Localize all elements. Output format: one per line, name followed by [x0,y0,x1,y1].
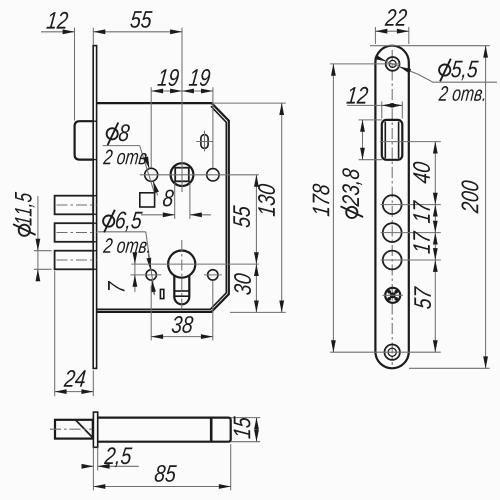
deadbolt pin 3 centerline [57,259,97,261]
label 2 otv upper [103,150,149,165]
faceplate vertical centerline [391,50,393,365]
dimension 40 (latch center to hole 1) [434,142,436,205]
text 15 (latch height) [234,416,251,439]
text 38 [172,316,194,333]
deadbolt hole 1 in faceplate [383,195,402,214]
dimension 19 left [151,87,182,167]
dimension 200 (faceplate length) [370,46,490,369]
horizontal centerline through holes (also ext for dim 55) [140,174,259,176]
text 40 [413,162,430,184]
dimension 55 vertical (hub to cylinder) [255,175,257,264]
text 30 [234,273,251,295]
deadbolt hole 3 in faceplate [383,251,402,270]
deadbolt pin 1 [55,196,94,215]
square follower hub [171,163,194,186]
label 2 otv lower [103,238,149,253]
deadbolt pin 2 centerline [57,232,97,234]
label phi5,5 2 holes with leader [375,57,497,83]
dimension 15 (bar height) [231,418,261,442]
dimension 2,5 (faceplate thickness) [84,448,139,471]
hole phi6,5 left [146,270,156,280]
deadbolt hole 1 centerline [381,204,441,206]
dimension 17 lower [434,233,436,260]
latch bolt pass-through marks on faceplate [93,121,96,269]
hole phi6,5 right [208,270,218,280]
hole right of hub [207,169,219,181]
text 12 (latch protrusion) [46,12,68,29]
latch head centerline [50,428,92,430]
label phi6,5 [103,210,143,233]
latch centerline ext (for dim 40) [380,141,441,143]
dimension 8 (hub square) [141,183,211,219]
deadbolt pin 1 centerline [57,204,97,206]
text 200 (plate length) [461,180,478,213]
bottom countersunk screw hole phi5,5 [385,345,400,360]
oval slot (latch axle) [196,131,213,152]
latch bolt head with bevel [55,420,93,439]
text phi11,5 (pin dia) [13,192,36,236]
latch cutout with latch bolt visible [382,120,403,160]
faceplate plate outline with rounded ends [375,46,408,369]
deadbolt pin 3 [55,251,94,270]
label phi8 2 holes with leader [103,146,158,196]
dimension 12 (latch protrusion) [41,28,75,121]
dimension 30 (cylinder to body bottom) [255,264,257,312]
dimension 85 (latch bar length) [93,444,230,490]
dimension 130 (body height) [212,103,286,312]
text 55 vertical [233,205,250,227]
dimension phi23,8 (latch cutout length) [359,120,382,160]
text 178 (screw spacing) [313,184,330,217]
top hole centerline / ext for dim 178 [330,63,400,65]
dimension 38 (phi6,5 holes spacing) [151,281,213,340]
text 12 (cutout width) [346,87,368,104]
small rectangular slot left of cylinder [160,289,163,298]
dimension phi11,5 (deadbolt pin diameter) [34,196,52,281]
text 24 [64,370,86,387]
label phi8 [107,123,130,146]
text 55 (backset) [130,11,152,28]
dimension 19 right [182,87,213,168]
text 85 (latch length) [155,465,177,482]
deadbolt pin 2 [55,223,94,242]
text 17 upper [413,200,430,223]
text 8 (hub square) [163,190,174,207]
text 22 (plate width) [385,9,408,26]
latch bolt head (front view, rounded left side) [75,121,94,159]
dimension 17 upper [434,205,436,233]
lock body outline with chamfered right corners [97,103,229,312]
text 17 lower [413,231,430,254]
text phi23,8 (cutout len) [341,168,364,218]
label 2 otv plate [438,86,484,101]
label phi5,5 [439,59,479,82]
label phi6,5 2 holes with leader [98,232,155,295]
square hole below phi8 [140,193,155,207]
text 19 right [189,69,211,86]
hole phi8 left [145,168,158,181]
deadbolt hole 3 centerline [381,259,441,261]
faceplate (left view, edge-on vertical bar) [93,46,96,369]
centerline marks through phi6,5 holes [130,274,161,276]
deadbolt hole 2 centerline [381,232,441,234]
bottom hole centerline / ext for dims 178 and 57 [330,351,441,353]
faceplate cross-section [93,412,97,447]
fixing screw head [383,288,403,303]
top countersunk screw hole phi5,5 [386,57,400,71]
euro cylinder profile hole [168,251,195,305]
text 7 [108,281,125,292]
deadbolt hole 2 in faceplate [383,223,402,242]
dimension 12 (latch cutout width) [347,102,402,119]
dimension 24 (pin reach to faceplate) [55,271,94,396]
dimension 57 (hole 3 to bottom screw) [434,260,436,352]
text 2,5 (plate thickness) [104,447,133,467]
text 130 (body height) [258,184,275,217]
text 19 left [157,69,179,86]
dimension 178 (screw hole spacing) [332,64,334,352]
extension line cylinder center (for dims 7 / 55 / 30) [161,263,259,265]
vertical centerline through hub (ext for dims 55 / 19) [181,28,183,192]
dimension 7 (cylinder center to hole center) [131,253,161,293]
text 57 [414,286,431,309]
latch body bar [98,418,231,442]
cylinder vertical centerline [181,240,183,310]
dimension 22 (faceplate width) [375,27,408,44]
dimension 55 (backset) [93,28,182,45]
